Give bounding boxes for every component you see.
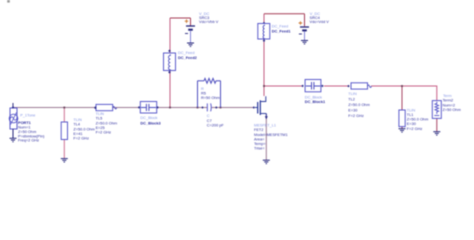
wire: TL4 to ground	[63, 140, 65, 159]
transmission line TL5 (series)	[94, 104, 117, 110]
svg-text:Z=50 Ohm: Z=50 Ohm	[443, 108, 461, 112]
wire: top left supply wire	[170, 17, 191, 19]
svg-text:Num=2: Num=2	[443, 103, 456, 107]
wire: Term stub to ground	[436, 118, 438, 131]
wire: TL1 shunt branch	[401, 86, 403, 110]
inductor DC_Feed1	[258, 22, 270, 42]
svg-text:Z=50.0 Ohm: Z=50.0 Ohm	[96, 121, 117, 125]
transmission line TL4 (shunt stub)	[61, 122, 67, 140]
svg-text:E=30: E=30	[407, 122, 416, 126]
svg-text:Model=MESFETM1: Model=MESFETM1	[254, 133, 288, 137]
svg-text:Term: Term	[443, 94, 452, 98]
wire: top right supply wire	[264, 13, 305, 15]
svg-text:DC_Feed2: DC_Feed2	[178, 56, 197, 60]
svg-text:Term2: Term2	[443, 99, 454, 103]
svg-text:DC_Feed1: DC_Feed1	[272, 29, 292, 33]
wire: main input line left segment	[13, 107, 207, 109]
resistor R5	[198, 78, 221, 107]
svg-text:R=50 Ohm: R=50 Ohm	[201, 96, 220, 100]
svg-text:C7: C7	[207, 119, 212, 123]
ground under TL4	[61, 159, 68, 162]
svg-text:PORT1: PORT1	[18, 121, 32, 125]
wire: main input line right of C7	[211, 107, 254, 109]
svg-text:DC_Block1: DC_Block1	[305, 100, 326, 104]
stray gray mark top-left	[7, 0, 10, 3]
svg-text:Z=50.0 Ohm: Z=50.0 Ohm	[348, 103, 369, 107]
ground under SRC3	[187, 43, 194, 46]
svg-text:MESFET_L1: MESFET_L1	[254, 124, 276, 128]
svg-text:E=25: E=25	[96, 126, 105, 130]
svg-text:TL4: TL4	[73, 123, 80, 127]
svg-text:TLIN: TLIN	[96, 112, 105, 116]
capacitor C7	[201, 103, 217, 111]
svg-text:DC_Block3: DC_Block3	[140, 121, 160, 125]
ground under TL1	[399, 129, 406, 132]
svg-text:C: C	[207, 114, 210, 118]
svg-text:DC_Feed: DC_Feed	[178, 51, 194, 55]
svg-text:Trise=: Trise=	[254, 147, 265, 151]
svg-text:F=2 GHz: F=2 GHz	[96, 131, 112, 135]
transistor FET	[253, 96, 268, 119]
wire: drain stub	[263, 86, 265, 96]
svg-text:Z=50.0 Ohm: Z=50.0 Ohm	[407, 118, 428, 122]
wire: TL4 shunt branch	[63, 108, 65, 123]
svg-text:E=30: E=30	[348, 109, 357, 113]
ground under FET source	[263, 160, 270, 163]
wire: transistor source to ground	[265, 114, 267, 161]
svg-text:F=2 GHz: F=2 GHz	[348, 114, 364, 118]
svg-text:F=2 GHz: F=2 GHz	[73, 137, 89, 141]
svg-text:C=200 pF: C=200 pF	[207, 124, 225, 128]
svg-text:Num=1: Num=1	[18, 126, 31, 130]
termination Term2	[432, 101, 441, 119]
svg-text:TL5: TL5	[96, 117, 103, 121]
svg-text:R5: R5	[201, 92, 206, 96]
svg-text:Vdc=Vbb V: Vdc=Vbb V	[199, 20, 219, 24]
ground under source	[10, 129, 17, 142]
DC source V_DC SRC4 (right)	[299, 21, 309, 40]
svg-text:DC_Block: DC_Block	[140, 116, 157, 120]
capacitor DC_Block1	[301, 80, 323, 92]
svg-text:Z=50 Ohm: Z=50 Ohm	[18, 130, 36, 134]
inductor DC_Feed2	[164, 50, 176, 74]
transmission line TL1 (shunt)	[399, 110, 405, 127]
svg-text:F=2 GHz: F=2 GHz	[407, 127, 423, 131]
svg-text:Freq=2 GHz: Freq=2 GHz	[18, 139, 39, 143]
svg-text:P=dbmtow(Pin): P=dbmtow(Pin)	[18, 134, 45, 138]
capacitor DC_Block3	[138, 102, 159, 114]
wire: DC_Feed2 branch vertical	[169, 71, 171, 108]
svg-text:TLIN: TLIN	[348, 92, 357, 96]
svg-text:TLIN: TLIN	[407, 108, 416, 112]
transmission line TL2 (series)	[347, 83, 371, 89]
svg-text:Area=: Area=	[254, 137, 265, 141]
svg-text:P_1Tone: P_1Tone	[20, 114, 35, 118]
wire: drain feed vertical	[263, 39, 265, 86]
svg-text:Z=50.0 Ohm: Z=50.0 Ohm	[73, 127, 94, 131]
pin diamond source	[12, 106, 14, 109]
junction node dots	[63, 107, 65, 109]
svg-text:FET2: FET2	[254, 128, 263, 132]
wire: output line	[264, 85, 302, 87]
svg-text:DC_Block: DC_Block	[305, 95, 322, 99]
svg-text:TL2: TL2	[348, 98, 355, 102]
svg-text:Temp=: Temp=	[254, 142, 266, 146]
svg-text:TLIN: TLIN	[73, 118, 82, 122]
ground under SRC4	[301, 41, 308, 44]
P_1Tone source PORT1	[9, 103, 18, 129]
ground under Term2	[433, 132, 440, 135]
svg-text:DC_Feed: DC_Feed	[272, 24, 288, 28]
DC source V_DC SRC3 (left)	[185, 19, 195, 42]
svg-text:Vdc=Vdd V: Vdc=Vdd V	[310, 20, 330, 24]
svg-text:E=41: E=41	[73, 132, 82, 136]
svg-text:R: R	[201, 87, 204, 91]
svg-text:TL1: TL1	[407, 113, 414, 117]
